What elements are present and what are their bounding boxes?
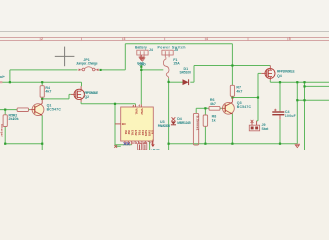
wire D1 riser bbox=[193, 66, 195, 83]
wire Q4 gate column bbox=[257, 73, 259, 120]
wire gnd column right bbox=[296, 82, 298, 144]
left edge label arrow bbox=[0, 81, 2, 83]
wire Q4 gate stub bbox=[258, 72, 261, 74]
wire Q2 gate riser bbox=[68, 94, 70, 99]
capacitor C4 bbox=[272, 109, 284, 120]
connector J9 x mark bbox=[251, 120, 254, 123]
wire bottom left rail bbox=[5, 143, 42, 145]
svg-text:GN: GN bbox=[151, 130, 155, 134]
IC U3 pin texts top bbox=[134, 108, 144, 115]
wire bottom rail bbox=[169, 143, 298, 145]
wire jumper line right bbox=[100, 69, 125, 71]
ground symbol right bbox=[295, 144, 300, 147]
wire source rail right bbox=[270, 81, 329, 83]
wire right branch low bbox=[297, 99, 329, 101]
wire Q3 collector line bbox=[232, 97, 258, 99]
svg-text:VIN2: VIN2 bbox=[140, 108, 144, 115]
wire gnd hang vertical bbox=[140, 65, 142, 105]
resistor R5 horizontal bbox=[17, 108, 28, 112]
svg-text:RFP30N06LE: RFP30N06LE bbox=[277, 70, 295, 74]
connector J5 body bbox=[162, 50, 173, 57]
wire mid horizontal bbox=[194, 65, 270, 67]
resistor R6 bbox=[209, 106, 220, 110]
connector J9 body bbox=[249, 121, 259, 131]
svg-text:2: 2 bbox=[41, 37, 43, 41]
svg-text:4k7: 4k7 bbox=[236, 89, 242, 93]
connector J4 body bbox=[137, 50, 148, 57]
resistor block B under IC bbox=[143, 143, 147, 150]
wire R2 top stub bbox=[4, 110, 6, 115]
svg-text:Power Switch: Power Switch bbox=[158, 45, 186, 49]
wire Q1 emitter drop bbox=[41, 115, 43, 150]
IC U3 bottom pin numbers bbox=[126, 142, 152, 145]
mosfet Q4 bbox=[261, 66, 275, 81]
IC U3 bottom pins bbox=[125, 141, 152, 145]
svg-text:4k7: 4k7 bbox=[210, 102, 216, 106]
tall connector box bbox=[193, 113, 198, 145]
wire C4 column upper bbox=[279, 82, 281, 111]
wire IC left pin vertical bbox=[114, 104, 116, 147]
wire charge line right part bbox=[141, 69, 163, 71]
wire left rail bbox=[0, 81, 82, 83]
wire right column far bbox=[304, 82, 306, 150]
wire drop to rail bbox=[9, 70, 11, 82]
power arrow under IC bbox=[151, 140, 155, 148]
ground symbol under J4 bbox=[140, 58, 146, 61]
ground symbol hang mid bbox=[139, 55, 145, 60]
wire right branch mid bbox=[305, 85, 329, 87]
IC U3 left pin bbox=[115, 123, 121, 125]
svg-text:BC547C: BC547C bbox=[47, 108, 62, 112]
svg-text:4: 4 bbox=[206, 37, 208, 41]
wire left base line bbox=[0, 109, 17, 111]
resistor R4 bbox=[40, 86, 44, 98]
resistor R7 bbox=[230, 85, 234, 96]
wire IC bottom left stub bbox=[115, 145, 121, 147]
sheet border lower red line bbox=[0, 39, 329, 41]
svg-text:Q4: Q4 bbox=[277, 74, 282, 78]
IC U3 no-connect x marks bbox=[124, 142, 130, 145]
jumper JP1 right pin x bbox=[97, 69, 99, 71]
wire C4 column lower bbox=[279, 120, 281, 144]
wire end square charge line bbox=[100, 69, 102, 71]
wire Q2 source corner vert bbox=[80, 102, 82, 104]
wire R4 top stub bbox=[41, 82, 43, 86]
wire Q2 drain drop bbox=[81, 82, 83, 86]
svg-text:B.Sense1: B.Sense1 bbox=[195, 116, 199, 131]
svg-text:VIN1: VIN1 bbox=[134, 108, 138, 115]
svg-text:3: 3 bbox=[124, 37, 126, 41]
IC U3 body bbox=[121, 107, 154, 141]
wire under IC horizontal bbox=[115, 144, 132, 146]
wire R2 bottom drop bbox=[4, 127, 6, 144]
wire D1 line left bbox=[169, 81, 184, 83]
diode D4 body bbox=[171, 121, 176, 124]
resistor R8 bbox=[203, 115, 207, 126]
wire D1 line right bbox=[190, 81, 194, 83]
wire fuse lower column bbox=[168, 78, 170, 150]
svg-text:SR5100: SR5100 bbox=[180, 71, 192, 75]
wire jumper line left bbox=[10, 69, 78, 71]
wire Q1 collector line bbox=[42, 98, 69, 100]
border column ticks bbox=[40, 37, 288, 41]
jumper JP1 symbol bbox=[80, 67, 96, 71]
mosfet Q2 bbox=[71, 86, 85, 102]
svg-text:Q2: Q2 bbox=[84, 95, 89, 99]
svg-text:J5: J5 bbox=[174, 48, 178, 52]
svg-text:100uF: 100uF bbox=[285, 114, 296, 118]
sheet top gray edge bbox=[0, 31, 329, 33]
wire Q3 emitter drop bbox=[231, 113, 233, 144]
sheet border upper red line bbox=[0, 36, 329, 38]
wire R8 top stub bbox=[204, 108, 206, 115]
transistor Q3 BC547C bbox=[222, 98, 234, 115]
diode D1 bbox=[183, 79, 189, 85]
wire tall box drop bbox=[195, 108, 197, 113]
svg-text:BC547C: BC547C bbox=[237, 105, 252, 109]
wire R8 bottom drop bbox=[204, 126, 206, 143]
IC U3 bottom pin name texts bbox=[124, 130, 155, 137]
wire Q4 source drop bbox=[269, 80, 271, 82]
diode D4 x mark bbox=[172, 117, 176, 121]
IC U3 top pin B bbox=[140, 104, 142, 107]
svg-text:Stat: Stat bbox=[262, 127, 270, 131]
svg-text:MBR1245: MBR1245 bbox=[177, 121, 191, 125]
left stub x mark bbox=[114, 145, 117, 148]
cursor crosshair bbox=[55, 47, 75, 67]
wire Q2 gate stub bbox=[69, 93, 71, 95]
wire top horizontal net bbox=[125, 43, 232, 45]
svg-text:PAM2306: PAM2306 bbox=[158, 124, 171, 128]
wire IC pin8 drop bbox=[149, 141, 151, 150]
wire end square gnd hang bbox=[140, 66, 142, 68]
svg-text:Charger: Charger bbox=[0, 124, 4, 138]
wire R6 right to base bbox=[220, 107, 222, 109]
svg-text:4k7: 4k7 bbox=[45, 90, 51, 94]
svg-text:al+: al+ bbox=[0, 75, 5, 79]
fuse F1 symbol bbox=[163, 57, 169, 78]
wire IC top pin stub A bbox=[135, 104, 137, 105]
resistor R2 far left bbox=[3, 115, 7, 127]
wire R7 bottom stub bbox=[231, 96, 233, 97]
IC U3 top pin A bbox=[135, 105, 137, 107]
wire R5 to Q1 base bbox=[29, 109, 31, 111]
svg-text:5: 5 bbox=[289, 37, 291, 41]
jumper JP1 left pin x bbox=[79, 69, 81, 71]
wire vertical left of battery bbox=[124, 44, 126, 70]
svg-text:+Batt: +Batt bbox=[151, 149, 160, 150]
resistor block A inner bbox=[139, 145, 141, 151]
wire R4 bottom stub bbox=[41, 97, 43, 99]
wire R7 column bbox=[231, 44, 233, 86]
svg-text:Jumper_Charge: Jumper_Charge bbox=[76, 62, 98, 66]
resistor block A under IC bbox=[138, 143, 142, 150]
svg-text:EN: EN bbox=[122, 122, 126, 126]
wire Q2 source line bbox=[81, 103, 135, 105]
svg-text:15A: 15A bbox=[173, 62, 180, 66]
svg-text:Battery: Battery bbox=[135, 45, 147, 49]
svg-text:GND: GND bbox=[137, 61, 145, 65]
wire R6 left segment bbox=[196, 107, 209, 109]
resistor block B inner bbox=[144, 145, 146, 151]
svg-text:10k: 10k bbox=[13, 117, 19, 121]
transistor Q1 BC547C bbox=[30, 99, 44, 116]
page area above sheet bbox=[0, 0, 329, 32]
svg-text:1k: 1k bbox=[212, 118, 216, 122]
svg-text:J4: J4 bbox=[149, 48, 153, 52]
